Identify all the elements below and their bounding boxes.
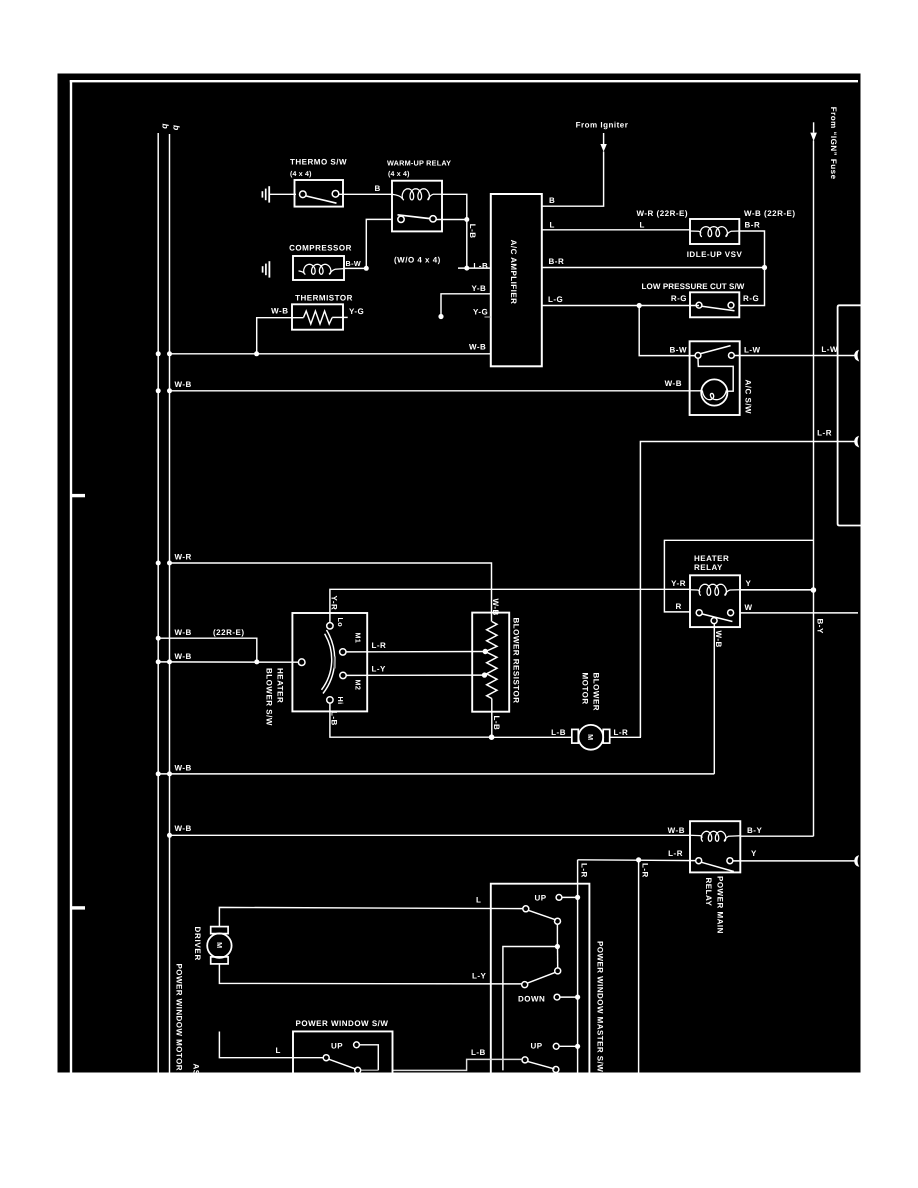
- junction dot DOWN: [575, 995, 580, 1000]
- terminal dot Y-B: [438, 314, 443, 319]
- low pressure cut switch box: [690, 292, 739, 317]
- svg-text:COMPRESSOR: COMPRESSOR: [289, 244, 352, 253]
- wire Y to junction: [740, 589, 813, 591]
- resistor tap dot L-Y: [482, 672, 487, 677]
- wire M1 to resistor tap L-R: [346, 651, 485, 653]
- thermo switch blade: [306, 196, 336, 203]
- warm-up relay switch blade: [398, 215, 431, 219]
- svg-text:A/C AMPLIFIER: A/C AMPLIFIER: [509, 240, 518, 305]
- svg-text:UP: UP: [535, 893, 547, 902]
- A/C switch contact left: [695, 353, 701, 359]
- svg-text:L-G: L-G: [548, 295, 563, 304]
- wire mid lower vertical: [557, 947, 559, 969]
- svg-text:M1: M1: [354, 633, 363, 644]
- svg-text:W-B: W-B: [175, 824, 192, 833]
- svg-text:M2: M2: [354, 680, 363, 691]
- blower switch wiper arc inner: [322, 634, 332, 690]
- power main relay contact left: [696, 858, 702, 864]
- page crop mask left: [0, 0, 58, 1188]
- junction dot rail2 W-B: [167, 351, 172, 356]
- svg-text:b: b: [161, 124, 171, 129]
- junction dot B-R: [762, 265, 767, 270]
- power window master switch box: [491, 884, 590, 1073]
- wire bottom stub: [361, 1069, 378, 1071]
- contact mid upper: [555, 918, 561, 924]
- driver motor M: [215, 942, 224, 948]
- svg-text:W-B: W-B: [469, 343, 486, 352]
- IGN fuse stub: [813, 122, 815, 132]
- wire W to edge: [740, 612, 858, 614]
- svg-text:W-B: W-B: [271, 307, 288, 316]
- svg-text:From “IGN” Fuse: From “IGN” Fuse: [829, 107, 838, 180]
- svg-text:From Igniter: From Igniter: [576, 121, 629, 130]
- junction dot rail2: [167, 388, 172, 393]
- border white line left: [70, 80, 72, 1073]
- svg-text:B-W: B-W: [346, 259, 362, 268]
- junction dot rail1 W-B: [156, 351, 161, 356]
- wire L-B master: [393, 1059, 522, 1070]
- junction dot rail1: [156, 636, 161, 641]
- wire L motor top: [219, 907, 522, 926]
- svg-text:UP: UP: [531, 1042, 543, 1051]
- wire Y-B pin: [441, 294, 491, 317]
- wire ground to thermo switch: [270, 193, 296, 195]
- wire L pin: [542, 229, 690, 231]
- border tick mark 1: [72, 494, 85, 497]
- blower switch wiper contact segment: [334, 657, 336, 669]
- wire W-B to lamp: [170, 390, 702, 392]
- IGN fuse arrowhead: [810, 133, 817, 142]
- junction dot L-R: [636, 857, 641, 862]
- wire L-B to motor: [492, 736, 572, 738]
- junction dot rail2: [167, 771, 172, 776]
- blower motor M: [586, 734, 595, 740]
- svg-text:Hi: Hi: [336, 697, 345, 705]
- svg-text:IDLE-UP VSV: IDLE-UP VSV: [687, 250, 743, 259]
- wire Y to connector: [733, 860, 855, 862]
- resistor tap dot L-R: [483, 649, 488, 654]
- wire L-B pin: [458, 267, 491, 269]
- wire L-G junction down to B-W: [639, 306, 695, 356]
- junction dot rail2 W-R: [167, 561, 172, 566]
- driver motor brush bottom: [211, 957, 228, 964]
- contact common: [323, 1055, 329, 1061]
- svg-text:R-G: R-G: [671, 294, 687, 303]
- blower switch common contact: [298, 659, 305, 666]
- wire L to switch: [219, 1032, 323, 1058]
- junction dot L-B upper: [464, 217, 469, 222]
- svg-text:L-R: L-R: [641, 863, 650, 878]
- wire warm-up switch out right: [436, 219, 467, 221]
- svg-text:POWER WINDOW S/W: POWER WINDOW S/W: [296, 1019, 389, 1028]
- svg-text:B-Y: B-Y: [747, 826, 762, 835]
- wire L-Y motor bottom: [219, 964, 521, 984]
- svg-text:(W/O 4 x 4): (W/O 4 x 4): [394, 256, 441, 265]
- compressor clutch box: [293, 256, 344, 280]
- warm-up relay switch contact left: [398, 216, 404, 222]
- From Igniter arrowhead: [600, 144, 606, 152]
- contact mid lower: [555, 968, 561, 974]
- svg-text:(4 x 4): (4 x 4): [388, 170, 410, 178]
- svg-text:W-R (22R-E): W-R (22R-E): [637, 209, 689, 218]
- svg-text:(4 x 4): (4 x 4): [290, 170, 312, 178]
- svg-text:Lo: Lo: [336, 618, 345, 628]
- svg-text:HEATER: HEATER: [694, 554, 729, 563]
- wire UP lower to vertical: [559, 1045, 578, 1047]
- junction dot thermistor W-B: [254, 351, 259, 356]
- svg-text:RELAY: RELAY: [704, 878, 713, 907]
- svg-text:L-W: L-W: [744, 345, 761, 354]
- junction dot rail2: [167, 659, 172, 664]
- svg-text:L-B: L-B: [468, 224, 477, 239]
- wire Y-R from Lo to heater relay: [330, 589, 690, 622]
- svg-text:Y-G: Y-G: [349, 307, 364, 316]
- page crop mask top: [0, 0, 918, 74]
- rail wire b2 (right vertical W-B rail): [169, 134, 171, 1073]
- svg-text:L-B: L-B: [471, 1048, 486, 1057]
- blade L to mid: [528, 910, 556, 920]
- svg-text:A/C S/W: A/C S/W: [744, 380, 753, 415]
- contact L-B lower: [553, 1067, 559, 1073]
- power main relay contact right: [727, 858, 733, 864]
- svg-text:L-B: L-B: [473, 262, 488, 271]
- wire B pin: [542, 152, 604, 207]
- wire warm-up coil out right: [442, 194, 467, 268]
- wire mid to left vertical: [503, 947, 558, 1071]
- junction dot UP: [575, 895, 580, 900]
- svg-text:W-B: W-B: [665, 379, 682, 388]
- wire Y-G stub: [485, 316, 491, 318]
- svg-text:R: R: [676, 602, 682, 611]
- heater relay coil: [690, 584, 740, 595]
- svg-text:L-R: L-R: [372, 641, 387, 650]
- svg-text:B-R: B-R: [549, 257, 565, 266]
- junction dot rail1: [156, 388, 161, 393]
- wire B-R pin: [542, 267, 765, 269]
- junction dot Y: [811, 587, 817, 593]
- svg-text:M: M: [215, 942, 224, 948]
- svg-text:W-B: W-B: [668, 826, 685, 835]
- svg-text:L-R: L-R: [580, 863, 589, 878]
- blower switch contact M2: [340, 672, 346, 678]
- svg-text:UP: UP: [331, 1042, 343, 1051]
- low pressure switch contact right: [728, 302, 734, 308]
- page crop mask bottom: [0, 1073, 918, 1188]
- wire W-B to blower switch common: [158, 661, 298, 663]
- heater relay switch contact bottom: [711, 618, 717, 624]
- svg-text:B-W: B-W: [670, 345, 688, 354]
- power main relay coil: [690, 831, 740, 841]
- A/C switch internal wire to lamp: [698, 358, 733, 391]
- svg-text:L: L: [276, 1046, 281, 1055]
- wire DOWN to vertical: [560, 996, 578, 998]
- svg-text:Y: Y: [751, 849, 757, 858]
- heater blower switch box: [292, 613, 367, 711]
- power window switch box: [293, 1031, 393, 1072]
- svg-text:POWER MAIN: POWER MAIN: [716, 876, 725, 934]
- svg-text:WARM-UP RELAY: WARM-UP RELAY: [387, 159, 451, 168]
- svg-text:B-Y: B-Y: [816, 619, 825, 634]
- A/C switch contact right: [729, 353, 735, 359]
- contact UP driver: [556, 895, 562, 901]
- junction dot B-W: [364, 266, 369, 271]
- svg-text:b: b: [172, 125, 182, 130]
- wire internal L-R vertical: [577, 860, 579, 1073]
- blade: [329, 1059, 357, 1069]
- svg-text:RELAY: RELAY: [694, 563, 723, 572]
- connector terminal L-W: [855, 351, 859, 361]
- svg-text:W: W: [745, 603, 753, 612]
- wire B thermo to warm-up relay: [339, 193, 392, 195]
- blade L-B: [528, 1061, 555, 1069]
- low pressure switch contact left: [696, 302, 702, 308]
- rail wire b1 (left vertical W-B rail): [157, 133, 159, 1073]
- blower switch contact Hi: [327, 697, 333, 703]
- svg-text:DRIVER: DRIVER: [193, 927, 202, 961]
- power main relay blade: [702, 862, 734, 871]
- svg-text:Y-R: Y-R: [330, 596, 339, 611]
- junction dot L-B: [489, 734, 495, 740]
- wire W-B pin from rails: [170, 353, 491, 355]
- thermo switch S1 box: [295, 180, 344, 207]
- heater relay box: [690, 575, 740, 627]
- wire UP corner down: [359, 1045, 378, 1070]
- svg-text:POWER WINDOW MASTER S/W: POWER WINDOW MASTER S/W: [596, 941, 605, 1072]
- svg-text:L-Y: L-Y: [472, 972, 487, 981]
- wire M2 to resistor tap L-Y: [346, 674, 484, 676]
- wire compressor B-W: [344, 219, 392, 268]
- wire mid vertical: [556, 924, 558, 946]
- svg-text:L: L: [476, 896, 481, 905]
- wire W-B thermistor left: [257, 318, 304, 354]
- wire L-W to connector: [734, 355, 855, 357]
- svg-text:L-R: L-R: [614, 728, 629, 737]
- junction dot rail1 W-R: [156, 561, 161, 566]
- svg-text:B: B: [375, 184, 381, 193]
- idle-up VSV box: [690, 219, 739, 244]
- warm-up relay coil: [392, 189, 442, 200]
- wire L-R down: [638, 860, 640, 1073]
- junction dot L-G: [637, 303, 642, 308]
- svg-text:L-R: L-R: [668, 849, 683, 858]
- svg-text:L-B: L-B: [492, 716, 501, 731]
- wire Y-G thermistor right stub: [332, 316, 348, 318]
- wire UP to vertical: [562, 896, 578, 898]
- thermistor resistor zigzag: [304, 311, 333, 324]
- wire VSV right to B-R junction: [739, 231, 764, 306]
- svg-text:W-B: W-B: [714, 631, 723, 648]
- blower switch wiper arc outer: [323, 630, 335, 694]
- blower switch contact M1: [340, 649, 346, 655]
- connector box right edge: [838, 305, 861, 525]
- page black background: [58, 74, 861, 1073]
- svg-text:B: B: [549, 196, 555, 205]
- junction dot mid: [555, 944, 560, 949]
- junction dot rail2: [167, 833, 172, 838]
- lamp circle: [701, 379, 727, 405]
- svg-text:Y-B: Y-B: [472, 284, 487, 293]
- A/C switch blade: [701, 346, 731, 354]
- svg-text:MOTOR: MOTOR: [581, 673, 590, 705]
- wire L-R to connector: [640, 442, 854, 738]
- lamp filament: [702, 390, 726, 399]
- svg-text:L-Y: L-Y: [372, 665, 387, 674]
- contact common L-B: [522, 1057, 528, 1063]
- blower switch contact Lo: [327, 623, 333, 629]
- svg-text:W-B (22R-E): W-B (22R-E): [744, 209, 796, 218]
- blower motor circle: [578, 725, 603, 750]
- svg-text:R-G: R-G: [743, 294, 759, 303]
- heater relay switch blade: [702, 614, 733, 622]
- svg-text:W-B: W-B: [175, 380, 192, 389]
- svg-text:L-W: L-W: [821, 345, 838, 354]
- svg-text:L: L: [550, 220, 555, 229]
- A/C switch box: [690, 341, 740, 415]
- connector terminal L-R: [855, 437, 859, 447]
- contact lower: [355, 1067, 361, 1073]
- compressor coil: [299, 264, 345, 274]
- wire W-B heater relay down: [713, 624, 715, 774]
- junction dot rail1: [156, 771, 161, 776]
- connector terminal Y: [855, 856, 859, 866]
- blower resistor box: [472, 613, 509, 712]
- svg-text:M: M: [586, 734, 595, 740]
- wire W-R from rails: [170, 563, 492, 622]
- A/C amplifier box: [491, 194, 542, 366]
- wire B-Y relay to vertical: [740, 835, 813, 837]
- svg-text:W-B: W-B: [175, 763, 192, 772]
- warm-up relay K1 box: [392, 181, 442, 232]
- contact UP lower: [553, 1043, 559, 1049]
- contact DOWN: [554, 994, 560, 1000]
- driver motor brush top: [211, 927, 228, 934]
- junction dot L-B pin: [464, 266, 469, 271]
- driver motor circle: [207, 933, 231, 957]
- contact UP: [354, 1042, 360, 1048]
- svg-text:BLOWER S/W: BLOWER S/W: [265, 668, 274, 726]
- svg-text:W-B: W-B: [175, 628, 192, 637]
- power main relay box: [690, 821, 740, 872]
- page crop mask right: [861, 0, 918, 1188]
- ground G2: [263, 261, 270, 277]
- svg-text:THERMO S/W: THERMO S/W: [290, 158, 347, 167]
- svg-text:DOWN: DOWN: [518, 995, 545, 1004]
- wire Hi down L-B: [330, 703, 492, 737]
- blade L-Y to mid lower: [527, 972, 555, 983]
- wire W-B rail to power main relay: [170, 834, 691, 836]
- junction dot UP lower: [575, 1044, 580, 1049]
- junction dot 22R-E: [254, 659, 259, 664]
- junction dot rail1: [156, 659, 161, 664]
- heater relay switch contact left: [696, 610, 702, 616]
- ground G1: [262, 186, 269, 202]
- wire L-G pin: [542, 305, 699, 307]
- svg-text:Y: Y: [746, 579, 752, 588]
- wire resistor bottom L-B: [491, 699, 493, 738]
- svg-text:POWER WINDOW MOTOR: POWER WINDOW MOTOR: [175, 964, 184, 1072]
- heater relay switch contact right: [728, 610, 734, 616]
- svg-text:BLOWER RESISTOR: BLOWER RESISTOR: [512, 618, 521, 704]
- wire L-R master to relay: [578, 859, 696, 862]
- svg-text:HEATER: HEATER: [276, 668, 285, 703]
- From Igniter stub: [603, 133, 605, 144]
- wire motor L-R: [610, 736, 641, 738]
- thermo switch contact right: [332, 191, 339, 198]
- svg-text:L-B: L-B: [551, 728, 566, 737]
- wire W-B rail to heater relay: [158, 773, 714, 775]
- thermistor R box: [292, 304, 343, 329]
- svg-text:(22R-E): (22R-E): [213, 628, 245, 637]
- svg-text:BLOWER: BLOWER: [592, 673, 601, 712]
- contact common L: [523, 906, 529, 912]
- svg-text:L: L: [640, 220, 645, 229]
- wire W-B 22R-E branch: [158, 638, 257, 662]
- idle-up VSV coil: [690, 227, 739, 237]
- svg-text:Y-R: Y-R: [671, 579, 686, 588]
- svg-text:LOW PRESSURE CUT S/W: LOW PRESSURE CUT S/W: [642, 282, 745, 291]
- blower resistor zigzag: [486, 622, 498, 699]
- warm-up relay switch contact right: [430, 216, 436, 222]
- low pressure switch blade: [702, 306, 735, 311]
- contact common L-Y: [522, 982, 528, 988]
- svg-text:L-R: L-R: [817, 428, 832, 437]
- border tick mark 2: [72, 906, 85, 909]
- border white line top: [70, 80, 858, 82]
- svg-text:Y-G: Y-G: [473, 308, 488, 317]
- svg-text:L-B: L-B: [330, 711, 339, 726]
- svg-text:W-R: W-R: [175, 553, 192, 562]
- blower motor brush left: [572, 729, 579, 743]
- svg-text:W-B: W-B: [175, 652, 192, 661]
- wire IGN fuse vertical: [813, 141, 815, 837]
- blower motor brush right: [603, 729, 610, 743]
- thermo switch contact left: [300, 191, 307, 198]
- svg-text:THERMISTOR: THERMISTOR: [295, 294, 353, 303]
- wire R path: [664, 540, 813, 612]
- svg-text:B-R: B-R: [745, 220, 761, 229]
